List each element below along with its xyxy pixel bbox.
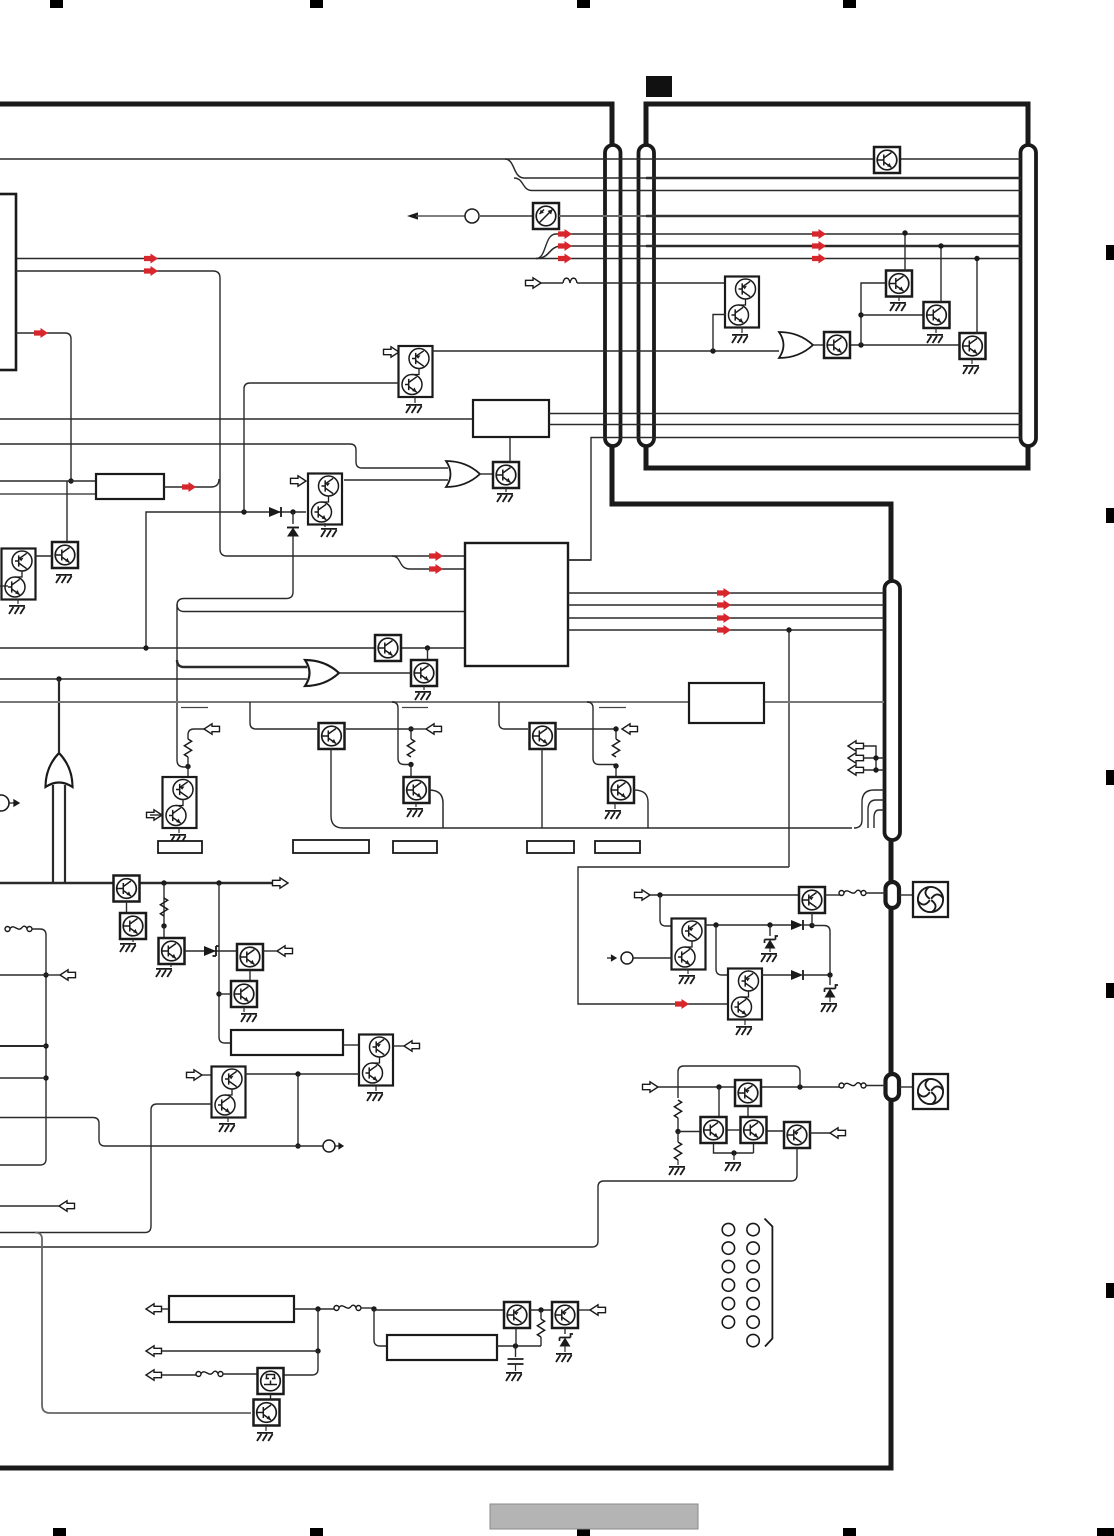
node h <box>786 627 791 632</box>
ground g1 <box>497 494 513 502</box>
wire f2 drop <box>716 925 729 975</box>
ground g26 <box>736 1027 752 1035</box>
wire row B sub <box>646 177 1021 179</box>
wire row B <box>505 159 646 178</box>
header pin R2 <box>747 1242 759 1254</box>
wire n2 stub <box>861 314 924 316</box>
wire G3 in2 <box>64 785 66 883</box>
red arrow 10 <box>675 999 689 1009</box>
ground g28 <box>669 1167 685 1175</box>
output arrow P1 <box>335 1143 343 1148</box>
wire G3 out <box>58 679 60 753</box>
node n4 <box>938 243 943 248</box>
node k1 <box>295 1071 300 1076</box>
input circle P3 <box>621 952 633 964</box>
registration mark bottom 2 <box>310 1528 323 1536</box>
registration mark right 4 <box>1106 983 1114 998</box>
wire LG1 out <box>343 1044 359 1046</box>
red arrow 2 <box>558 241 572 251</box>
wire Q12 to Q13 <box>249 970 251 981</box>
ground g7 <box>605 811 621 819</box>
wire loop to fan ctl <box>578 630 789 1004</box>
wire p2 drop <box>374 1309 387 1346</box>
connector CN1 (main right) <box>605 145 621 446</box>
white arrow o7 <box>60 970 76 980</box>
node f3 <box>767 922 772 927</box>
wire fan2 loop <box>678 1066 800 1098</box>
node b <box>710 348 715 353</box>
registration mark right 1 <box>1106 245 1114 260</box>
wire K1 bottom <box>331 748 852 828</box>
logic box LG1 <box>231 1030 343 1055</box>
wire F1 to CN5 <box>866 892 886 894</box>
label box L2 <box>393 841 437 853</box>
white arrow b3 <box>146 1370 162 1380</box>
red arrow ic3-0 <box>717 588 731 598</box>
input arrow P2 <box>9 800 19 806</box>
wire Q4 to Q5 <box>427 648 429 660</box>
wire f1 drop <box>660 895 672 926</box>
driver box DR1 <box>689 683 764 723</box>
registration mark right 5 <box>1106 1283 1114 1298</box>
ground g23 <box>963 366 979 374</box>
diode D1 <box>269 507 281 517</box>
fuse F2 <box>839 1083 866 1088</box>
wire CN5 to FAN1 <box>899 894 913 896</box>
transistor pair Q2 <box>308 474 342 525</box>
white arrow o8 <box>830 1128 846 1138</box>
wire Q31 low out <box>713 315 726 352</box>
wire Q14 out stub <box>393 1045 404 1047</box>
wire G2 out <box>339 672 411 674</box>
wire fan2 main <box>658 1086 841 1088</box>
wire Q42 stem <box>744 1020 746 1025</box>
IC IC3 <box>465 543 568 666</box>
header pin R5 <box>747 1297 759 1309</box>
header bracket <box>765 1219 773 1347</box>
wire row D left <box>416 215 465 217</box>
zener ZD3 <box>765 936 779 949</box>
wire Q5 stem <box>423 686 425 690</box>
wire row 1351 <box>162 1350 318 1352</box>
wire R3 top <box>615 729 617 739</box>
wire b3 to SW3 <box>162 1374 196 1376</box>
switch SW3 <box>196 1371 223 1376</box>
capacitor C1 <box>508 1359 524 1364</box>
ground g12 <box>219 1124 235 1132</box>
wire Q43 drop <box>747 1106 749 1117</box>
wire f4 corner <box>812 926 830 976</box>
wire row F split <box>536 246 646 259</box>
header pin R7 <box>747 1334 759 1346</box>
registration mark top 1 <box>50 0 63 8</box>
transistor Q51 <box>552 1302 578 1328</box>
ground g13 <box>56 575 72 583</box>
wire R4 col <box>163 883 165 926</box>
terminal circle <box>465 209 479 223</box>
wire Q17 riser <box>66 481 68 542</box>
ground g32 <box>257 1433 273 1441</box>
white arrow o10 <box>590 1305 606 1315</box>
wire Q45-Q46 <box>767 1130 784 1132</box>
wire Q1 stem <box>414 397 416 403</box>
wire h4 gnd stub <box>733 1153 735 1160</box>
wire Q16 stub <box>0 585 8 587</box>
wire row E split <box>536 234 1021 259</box>
wire drop x593 <box>587 702 616 765</box>
wire row 975 <box>0 974 46 976</box>
red arrow ic3-2 <box>717 613 731 623</box>
wire zd2 stub <box>829 975 831 985</box>
white arrow fan1 <box>635 890 651 900</box>
node i3t <box>613 726 618 731</box>
wire Q7 stem <box>415 803 417 807</box>
wire Q9 to Q10 <box>126 901 128 913</box>
wire row F sub <box>646 245 1021 247</box>
wire G4 out <box>813 344 823 346</box>
wire Q32 out <box>851 344 961 346</box>
label box L4 <box>595 841 640 853</box>
page label grey box <box>490 1504 698 1529</box>
wire R1 top <box>188 729 204 739</box>
node h4 <box>731 1150 736 1155</box>
wire P3 to Q42 <box>633 957 672 959</box>
wire IC3 out3 <box>568 617 884 619</box>
transistor pair Q42 <box>728 969 762 1020</box>
OR gate G2 <box>305 660 339 686</box>
wire cap stub <box>515 1346 517 1357</box>
node g <box>56 676 61 681</box>
mosfet Q52 <box>258 1368 284 1394</box>
tick mark 3 <box>599 707 626 709</box>
tick mark 1 <box>181 707 208 709</box>
wire bus to CN4 a <box>854 790 884 828</box>
wire Q13 stem <box>243 1007 245 1012</box>
wire K2 bottom <box>541 748 543 828</box>
wire Q51 drop <box>564 1328 566 1334</box>
wire T13 return <box>35 1233 251 1414</box>
node p5 <box>315 1348 320 1353</box>
node p3 <box>538 1307 543 1312</box>
registration mark right 2 <box>1106 508 1114 523</box>
node p4 <box>513 1343 518 1348</box>
ground g8 <box>120 944 136 952</box>
white arrow c2 <box>848 753 864 763</box>
zener ZD2 <box>825 985 839 998</box>
wire row D mid <box>479 215 533 217</box>
wire Q34 riser <box>940 246 942 302</box>
white arrow in Q2 <box>291 476 307 486</box>
wire SW2 out <box>361 1307 374 1309</box>
wire Q6 stem <box>178 828 180 833</box>
wire b1 stub <box>162 1308 169 1310</box>
wire bus to CN4 b <box>868 800 884 828</box>
wire R5 bot <box>677 1118 679 1132</box>
wire R7 bot <box>540 1337 542 1346</box>
connector CN6 (fan2) <box>886 1074 900 1100</box>
wire row C <box>514 178 1021 191</box>
red arrow 8 <box>34 328 48 338</box>
white arrow in Q15 <box>187 1070 203 1080</box>
wire row K <box>0 493 96 495</box>
node f5 <box>827 972 832 977</box>
transistor Q43 <box>735 1080 761 1106</box>
wire Q46 return <box>0 1148 797 1247</box>
sub board outline <box>646 104 1028 468</box>
wire to Q6 <box>187 767 189 778</box>
fan motor FAN2 <box>913 1074 948 1109</box>
wire p1 drop <box>317 1309 319 1351</box>
connector CN4 (main lower right) <box>885 581 901 840</box>
wire Q8 stem <box>614 803 616 809</box>
resistor R1 <box>184 739 191 757</box>
wire Q31 stem <box>741 327 743 333</box>
wire Q52-Q53 <box>270 1394 272 1400</box>
ground g27 <box>821 1004 837 1012</box>
wire SW1 col <box>0 929 46 1165</box>
registration mark top 2 <box>310 0 323 8</box>
node h2 <box>797 1084 802 1089</box>
header pin R1 <box>747 1223 759 1235</box>
wire bus 883 b <box>139 882 274 884</box>
wire R7 top <box>540 1310 542 1319</box>
red arrow 6 <box>429 551 443 561</box>
wire to Q7 <box>410 765 412 778</box>
wire row 702 right <box>764 701 884 703</box>
wire Q3 stem <box>505 488 507 492</box>
transistor Q50 <box>504 1302 530 1328</box>
red arrow 9 <box>182 482 196 492</box>
wire Q15 stub <box>202 1074 212 1076</box>
resistor R6 <box>674 1142 681 1160</box>
wire Q15 to Q14 <box>245 1073 359 1075</box>
wire Q53 stem <box>265 1426 267 1431</box>
wire IC3 out4 <box>568 629 884 631</box>
node n1 <box>858 342 863 347</box>
registration mark bottom 3 <box>577 1528 590 1536</box>
wire j4 stub <box>219 993 231 995</box>
wire p2 row <box>374 1309 504 1311</box>
wire Q15 stem <box>227 1117 229 1122</box>
wire row 283 b <box>577 282 726 284</box>
ground g30 <box>506 1373 522 1381</box>
diode D4 <box>791 970 803 980</box>
connector CN5 (fan1) <box>886 882 900 908</box>
wire zd3 stub <box>769 925 771 936</box>
label box L3 <box>527 841 574 853</box>
white arrow o4 <box>273 878 289 888</box>
red arrow s2 <box>812 241 826 251</box>
wire Q34 stem <box>935 328 937 333</box>
wire K1 out <box>346 728 411 730</box>
node f <box>425 645 430 650</box>
wire Q10 stem <box>132 939 134 942</box>
white arrow c1 <box>848 741 864 751</box>
wire row J <box>0 480 96 482</box>
transistor Q3 <box>493 462 519 488</box>
ground g22 <box>927 335 943 343</box>
transistor Q12 <box>237 944 263 970</box>
wire R6 top <box>677 1132 679 1143</box>
node h1 <box>716 1084 721 1089</box>
red arrow 5 <box>144 266 158 276</box>
wire Q44-Q45 <box>727 1129 740 1131</box>
white arrow in Q6 <box>147 810 163 820</box>
white arrow o6 <box>404 1041 420 1051</box>
wire zd3 gnd <box>769 948 771 952</box>
wire Q11 to Q12 <box>185 950 237 952</box>
transistor Q9 <box>114 876 140 902</box>
node f1 <box>657 892 662 897</box>
transistor Q33 <box>886 271 912 297</box>
node i1 <box>185 764 190 769</box>
transistor Q44 <box>701 1117 727 1143</box>
red arrow 4 <box>144 254 158 264</box>
wire Q40 out <box>825 894 841 896</box>
wire row 1206 <box>0 1205 59 1207</box>
node p1 <box>315 1306 320 1311</box>
node j4 <box>216 991 221 996</box>
ground g10 <box>241 1014 257 1022</box>
node c3 <box>873 767 878 772</box>
wire o2 stub <box>411 728 426 730</box>
white arrow o3 <box>622 724 638 734</box>
ground g9 <box>156 969 172 977</box>
wire row H <box>0 418 473 420</box>
regulator box BX2 <box>387 1335 497 1360</box>
header pin L3 <box>722 1260 734 1272</box>
transistor Q45 <box>741 1117 767 1143</box>
ground g11 <box>367 1093 383 1101</box>
node n2 <box>858 312 863 317</box>
IC IC1 (edge) <box>0 194 16 370</box>
wire R6 gnd <box>677 1160 679 1165</box>
wire Q16-Q17 <box>35 555 52 557</box>
wire K2 out <box>557 728 616 730</box>
resistor R2 <box>407 739 414 757</box>
wire p5 to Q52 <box>284 1351 318 1375</box>
wire IC2 to Q3 <box>509 437 511 462</box>
transistor pair Q14 <box>359 1035 393 1086</box>
wire row 702 left <box>0 701 689 703</box>
ground g4 <box>415 692 431 700</box>
transistor Q8 <box>608 777 634 803</box>
white arrow fan2 <box>643 1082 659 1092</box>
wire Q1 out row <box>432 350 779 352</box>
ferrite bead FB1 <box>563 278 577 283</box>
registration mark right 3 <box>1106 770 1114 785</box>
diode D3 <box>791 920 803 930</box>
IC IC2 <box>473 400 549 437</box>
transistor Q5 <box>411 660 437 686</box>
wire diode row <box>146 512 306 648</box>
node j1 <box>161 880 166 885</box>
relay box K1 <box>319 723 345 749</box>
wire IC3 riser <box>568 559 591 561</box>
wire G1 out <box>480 473 494 475</box>
wire bus branch 611 <box>177 604 465 612</box>
wire D3 to Q40 <box>803 924 812 926</box>
node d <box>290 509 295 514</box>
wire IC2 out1 <box>549 413 1021 415</box>
wire Q50 drop <box>515 1328 517 1346</box>
diode D5 <box>287 528 299 537</box>
section marker square <box>646 76 672 97</box>
wire CN6 to FAN2 <box>899 1086 913 1088</box>
node f2 <box>713 922 718 927</box>
node i3 <box>613 763 618 768</box>
transistor Q17 <box>52 542 78 568</box>
interlock box BX1 <box>169 1296 294 1322</box>
ground g3 <box>321 529 337 537</box>
wire from IC1 pin c <box>16 333 71 481</box>
node j2 <box>216 880 221 885</box>
header pin R3 <box>747 1260 759 1272</box>
label box L2b <box>293 840 369 853</box>
input arrow P3 <box>607 955 616 960</box>
wire Q35 riser <box>976 259 978 335</box>
registration mark bottom 4 <box>843 1528 856 1536</box>
node a <box>68 478 73 483</box>
switch SW1 <box>5 926 32 931</box>
node k2 <box>295 1143 300 1148</box>
red arrow 3 <box>558 254 572 264</box>
wire drop x499 <box>499 702 528 729</box>
OR gate G3 <box>46 753 73 787</box>
ground g2 <box>406 405 422 413</box>
transistor Q13 <box>231 981 257 1007</box>
wire h1 drop <box>718 1087 720 1117</box>
resistor R3 <box>612 739 619 757</box>
node j3 <box>161 923 166 928</box>
wire c cluster <box>863 746 884 770</box>
transistor Q10 <box>120 913 146 939</box>
white arrow o9 <box>59 1201 75 1211</box>
wire n1 riser <box>861 283 887 345</box>
transistor pair Q1 <box>399 346 433 397</box>
node m3 <box>43 1075 48 1080</box>
registration mark top 3 <box>577 0 590 8</box>
wire IC3 out2 <box>568 604 884 606</box>
wire Q2 to G1 <box>344 479 448 481</box>
wire Q44 drop <box>714 1143 754 1153</box>
node p2 <box>371 1306 376 1311</box>
wire Q41 out <box>705 924 791 926</box>
wire row 283 a <box>541 282 563 284</box>
wire Q33 stem <box>898 296 900 301</box>
OR gate G1 <box>446 461 480 487</box>
wire row 1046 <box>0 1045 46 1047</box>
resistor R7 <box>537 1319 544 1337</box>
wire Q7 to bus <box>429 790 443 828</box>
ground g24 <box>679 976 695 984</box>
wire row 648 left <box>0 647 465 649</box>
transistor pair Q15 <box>212 1067 246 1118</box>
wire zd4 gnd <box>564 1346 566 1352</box>
wire SW3 to Q52 <box>223 1373 257 1375</box>
wire Q12 out <box>263 950 277 952</box>
red arrow s3 <box>812 254 826 264</box>
ground g6 <box>407 809 423 817</box>
transistor Q30 <box>874 147 900 173</box>
node n5 <box>974 256 979 261</box>
transistor pair Q16 <box>2 549 36 600</box>
node i2t <box>408 726 413 731</box>
ground g29 <box>725 1163 741 1171</box>
registration mark bottom 1 <box>53 1528 66 1536</box>
input circle P2 <box>0 795 9 811</box>
red arrow ic3-3 <box>717 625 731 635</box>
